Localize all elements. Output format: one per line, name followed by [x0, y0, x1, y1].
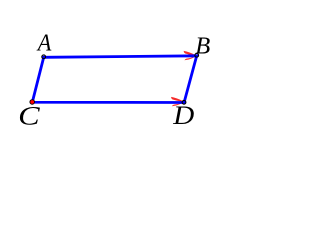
svg-text:C: C	[18, 100, 40, 130]
svg-text:D: D	[172, 101, 194, 130]
svg-text:A: A	[36, 30, 52, 57]
svg-text:B: B	[195, 32, 210, 59]
